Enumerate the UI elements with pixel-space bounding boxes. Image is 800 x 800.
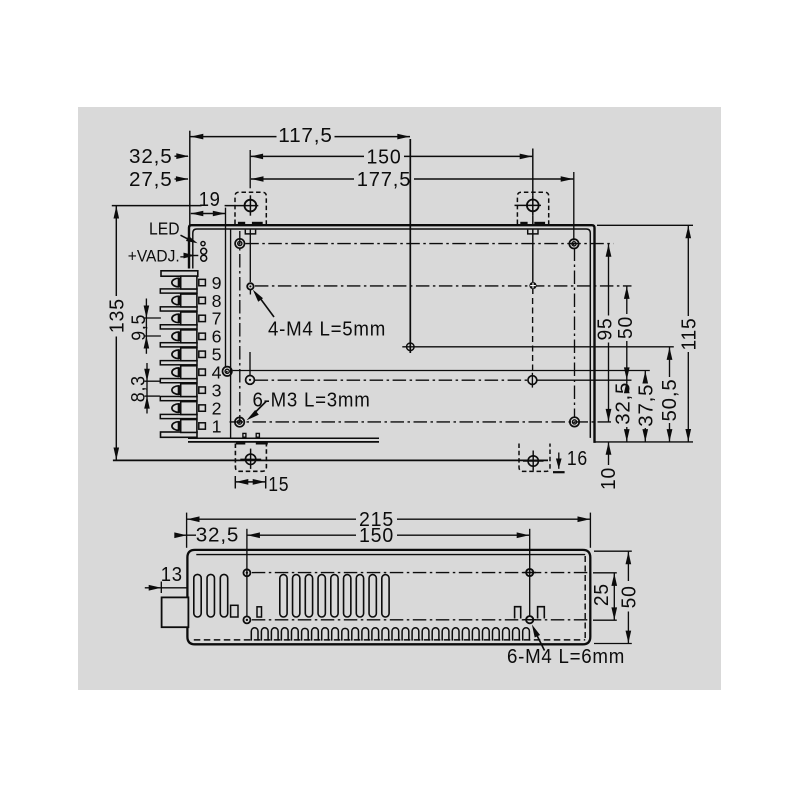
hole column left (bottom view)	[246, 529, 248, 617]
top view: case bottom edge double line	[188, 437, 379, 439]
svg-text:1: 1	[212, 416, 222, 436]
dimension 37,5	[644, 371, 646, 383]
bracket top-left tab slot	[245, 230, 255, 234]
extension line from 19 dim to side hole	[225, 208, 227, 367]
dimension 50 right upper	[626, 286, 628, 314]
svg-text:50: 50	[615, 316, 637, 339]
hole top-right bottom view	[526, 569, 533, 576]
hole bottom-right bottom view (6-M4)	[526, 616, 533, 623]
dimension 50,5	[669, 347, 671, 377]
hole 4-M4 right (filled with cross)	[532, 149, 534, 196]
bottom view center line row upper	[252, 572, 589, 574]
top view: case outer outline (left+top+right edges)	[189, 225, 595, 443]
center line vertical left hole column	[239, 231, 241, 422]
svg-text:50: 50	[619, 585, 641, 608]
terminal block bottom cap	[161, 432, 198, 437]
svg-text:+VADJ.-: +VADJ.-	[128, 247, 185, 266]
svg-text:177,5: 177,5	[357, 169, 412, 191]
dimension 15	[234, 476, 236, 489]
hole top-left bottom view	[243, 569, 250, 576]
svg-text:32,5: 32,5	[129, 146, 173, 168]
top view: base plate bottom line	[113, 459, 548, 461]
bracket top-right tab slot	[528, 230, 538, 234]
dimension 150 top	[249, 150, 251, 188]
small notch 1	[231, 605, 238, 617]
VADJ potentiometer slot	[201, 248, 207, 254]
top view: inner side wall line	[230, 229, 232, 437]
dimension 115	[687, 226, 689, 316]
bracket top-right feet	[520, 222, 527, 226]
dimension 32,5 top	[175, 155, 189, 157]
bracket bottom-left tab slots	[243, 433, 246, 437]
AC inlet	[162, 597, 189, 627]
bottom view: hidden right edge	[584, 556, 586, 638]
svg-text:6-M3 L=3mm: 6-M3 L=3mm	[253, 389, 371, 411]
bottom scallop vents	[251, 628, 529, 641]
bottom view: hidden bottom edge	[194, 639, 585, 641]
ring hole side 37.5	[223, 367, 232, 376]
dimension 215	[186, 513, 188, 548]
dimension 135	[112, 205, 202, 207]
center hole with cross	[407, 343, 415, 351]
dimension 27,5	[175, 178, 189, 180]
drawing area gray background	[78, 107, 721, 690]
extension line for 50 bottom	[594, 643, 632, 645]
hole column right (bottom view)	[529, 529, 531, 616]
svg-text:50,5: 50,5	[659, 379, 681, 422]
top view: case inner outline line	[193, 229, 591, 438]
bracket top-right hole crosshair	[527, 200, 539, 212]
terminal block partition bars	[160, 289, 197, 293]
svg-text:10: 10	[598, 467, 620, 490]
mounting bracket top-left (hidden)	[235, 192, 266, 224]
hole 6-M3 left	[249, 352, 251, 375]
mounting bracket bottom-left (hidden)	[235, 444, 266, 472]
ring hole top-left	[235, 239, 244, 248]
svg-text:32,5: 32,5	[196, 525, 240, 547]
dimension 16	[553, 471, 565, 473]
svg-text:LED: LED	[149, 219, 180, 239]
left vent slots	[194, 574, 201, 617]
svg-text:37,5: 37,5	[636, 384, 658, 427]
hole bottom-left bottom view	[243, 616, 250, 623]
bottom view center line row lower	[252, 619, 589, 621]
dimension 117,5	[189, 131, 191, 225]
mounting bracket top-right (hidden)	[517, 192, 548, 224]
svg-text:115: 115	[679, 318, 701, 351]
svg-text:8,3: 8,3	[129, 375, 150, 402]
svg-text:16: 16	[567, 448, 588, 470]
dimension 150 bottom	[247, 534, 356, 536]
svg-text:15: 15	[268, 474, 289, 496]
extension line for 50 top	[594, 550, 632, 552]
dimension 13	[160, 582, 162, 594]
center line row 1	[245, 243, 613, 245]
center line vertical right hole column	[574, 248, 576, 418]
dimension 177,5	[573, 172, 575, 241]
bracket bottom-left hole crosshair	[245, 454, 255, 464]
svg-text:117,5: 117,5	[278, 125, 333, 147]
terminal block cells with screws and tabs	[181, 276, 197, 289]
ring hole bottom-left	[235, 417, 244, 426]
extension line bottom edge right	[595, 441, 694, 443]
small notch 2	[257, 607, 262, 617]
center line row 2 (4-M4 holes)	[255, 285, 632, 287]
ring hole bottom-right	[570, 417, 579, 426]
svg-text:13: 13	[161, 564, 183, 586]
center line bottom hole row	[230, 421, 614, 423]
dimension 95	[608, 244, 610, 316]
terminal block top cap	[161, 271, 198, 276]
hole 4-M4 left	[249, 230, 251, 283]
bracket top-left feet	[238, 222, 245, 226]
svg-text:19: 19	[199, 189, 221, 211]
extension line center hole row	[402, 346, 674, 348]
bracket top-left hole crosshair	[245, 200, 257, 212]
extension line side hole row 37.5	[233, 370, 650, 372]
dimension 50 bottom view	[627, 552, 629, 582]
hidden line bracket2 to M3 hole	[532, 298, 534, 373]
svg-text:25: 25	[591, 583, 613, 606]
dimension 10	[608, 442, 610, 465]
svg-text:9,5: 9,5	[129, 314, 150, 341]
dimension 8,3	[145, 380, 160, 382]
svg-text:150: 150	[359, 525, 394, 547]
LED indicator circle	[201, 242, 205, 246]
svg-text:95: 95	[595, 318, 617, 341]
svg-text:6-M4 L=6mm: 6-M4 L=6mm	[507, 646, 625, 668]
ring hole top-right	[569, 239, 578, 248]
right notch 2	[538, 607, 545, 619]
bracket bottom-left feet	[236, 442, 245, 444]
bracket bottom-right hole crosshair	[528, 456, 538, 466]
dimension 32,5 right	[626, 381, 628, 384]
main vent slots	[280, 575, 287, 617]
svg-text:27,5: 27,5	[129, 169, 173, 191]
dimension 9,5	[144, 317, 161, 319]
dimension 32,5 bottom	[175, 534, 196, 536]
center line row M3 holes	[255, 379, 528, 381]
bottom view: inner top seam line	[196, 554, 585, 556]
svg-text:4-M4 L=5mm: 4-M4 L=5mm	[268, 319, 386, 341]
svg-text:150: 150	[367, 146, 402, 168]
mounting bracket bottom-right (hidden)	[519, 444, 550, 472]
svg-text:32,5: 32,5	[612, 382, 634, 425]
hole 6-M3 right	[528, 376, 537, 385]
bottom view: case outline	[187, 550, 590, 644]
dimension 25	[613, 573, 615, 620]
svg-text:135: 135	[106, 298, 128, 333]
right notch 1	[515, 607, 521, 619]
extension line top edge right	[597, 224, 693, 226]
